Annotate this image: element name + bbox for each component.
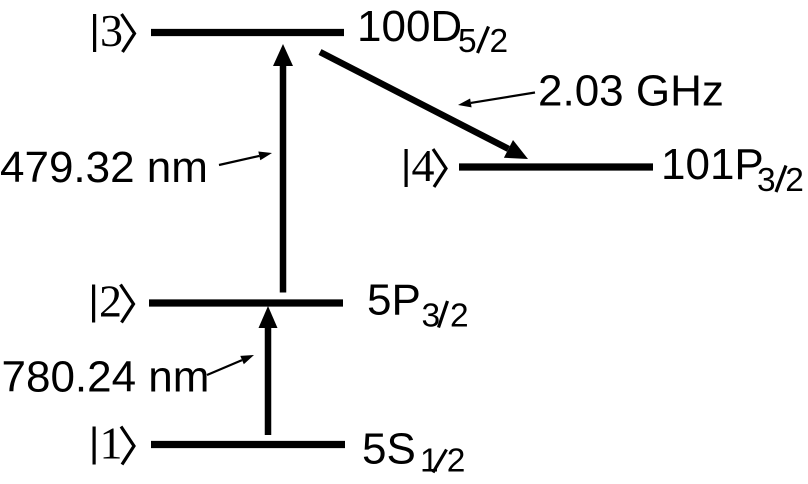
svg-text:1: 1 [100, 418, 123, 469]
svg-text:100D: 100D [357, 2, 462, 51]
svg-text:5: 5 [458, 23, 477, 60]
svg-text:2: 2 [785, 162, 804, 199]
ket label |1&gt; for level 1 [94, 418, 134, 469]
svg-text:3: 3 [422, 298, 441, 335]
state label 100D5/2 for level 3 [357, 2, 508, 60]
level |2> (5P3/2) energy level line [149, 299, 343, 306]
level |3> (100D5/2) energy level line [151, 29, 344, 36]
thin pointer arrow from 780.24 nm label to vertical arrow [207, 355, 254, 375]
svg-text:2.03 GHz: 2.03 GHz [538, 67, 724, 116]
state label 5S1/2 for level 1 [362, 425, 465, 480]
svg-text:3: 3 [100, 5, 123, 56]
svg-text:4: 4 [412, 140, 435, 191]
svg-text:3: 3 [757, 162, 776, 199]
svg-text:2: 2 [490, 23, 509, 60]
ket label |2&gt; for level 2 [94, 276, 134, 327]
479.32 nm excitation arrow from level |2> up to level |3> [273, 44, 293, 293]
state label 101P3/2 for level 4 [661, 140, 804, 199]
level |4> (101P3/2) energy level line [459, 163, 653, 170]
svg-text:2: 2 [447, 443, 466, 480]
thin pointer arrow from 2.03 GHz label to diagonal arrow [458, 93, 535, 108]
svg-text:1: 1 [420, 443, 439, 480]
state label 5P3/2 for level 2 [367, 276, 469, 335]
svg-text:101P: 101P [661, 140, 764, 189]
svg-text:2: 2 [99, 276, 122, 327]
level |1> (5S1/2) energy level line [151, 441, 345, 448]
svg-text:5S: 5S [362, 425, 416, 474]
svg-text:2: 2 [450, 298, 469, 335]
780.24 nm excitation arrow from level |1> up to level |2> [259, 306, 278, 435]
thin pointer arrow from 479.32 nm label to vertical arrow [219, 152, 272, 166]
ket label |4&gt; for level 4 [406, 140, 446, 191]
2.03 GHz transition arrow from level |3> down to level |4> [320, 52, 528, 159]
svg-text:780.24 nm: 780.24 nm [2, 353, 210, 402]
svg-text:5P: 5P [367, 276, 421, 325]
svg-text:479.32 nm: 479.32 nm [0, 143, 208, 192]
ket label |3&gt; for level 3 [95, 5, 135, 56]
